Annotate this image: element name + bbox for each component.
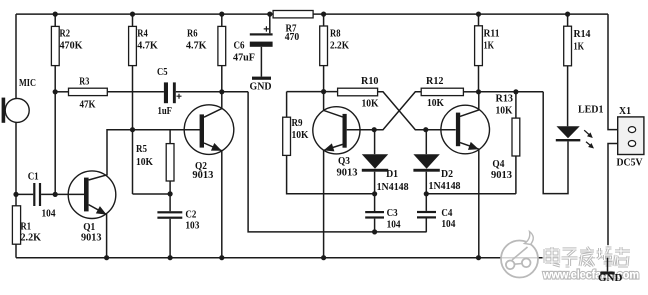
svg-text:D1: D1: [386, 168, 398, 180]
svg-text:1N4148: 1N4148: [429, 180, 461, 192]
svg-text:D2: D2: [441, 168, 453, 180]
svg-text:47K: 47K: [80, 98, 96, 110]
svg-text:1K: 1K: [484, 39, 495, 51]
svg-text:47uF: 47uF: [233, 51, 255, 63]
svg-text:R3: R3: [79, 76, 89, 88]
svg-text:9013: 9013: [491, 169, 512, 181]
svg-text:MIC: MIC: [19, 77, 36, 89]
svg-text:www.elecfans.com: www.elecfans.com: [542, 269, 639, 282]
svg-text:9013: 9013: [192, 169, 213, 181]
svg-text:10K: 10K: [427, 97, 444, 109]
svg-text:4.7K: 4.7K: [186, 40, 207, 52]
svg-text:470K: 470K: [60, 40, 83, 52]
svg-text:R10: R10: [361, 75, 379, 87]
svg-text:104: 104: [387, 218, 401, 230]
svg-text:10K: 10K: [362, 97, 379, 109]
svg-text:103: 103: [185, 219, 199, 231]
svg-text:X1: X1: [619, 105, 631, 117]
svg-text:R6: R6: [187, 27, 198, 39]
svg-text:GND: GND: [250, 80, 272, 92]
svg-text:9013: 9013: [337, 167, 358, 179]
svg-text:GND: GND: [598, 272, 623, 284]
svg-text:2.2K: 2.2K: [21, 231, 42, 243]
svg-text:LED1: LED1: [578, 104, 604, 116]
svg-text:4.7K: 4.7K: [137, 40, 158, 52]
svg-text:R2: R2: [60, 27, 71, 39]
svg-text:C3: C3: [387, 207, 398, 219]
svg-text:DC5V: DC5V: [617, 157, 643, 169]
svg-text:9013: 9013: [81, 231, 102, 243]
svg-text:R11: R11: [484, 28, 500, 40]
svg-text:R13: R13: [496, 92, 514, 104]
svg-text:10K: 10K: [136, 156, 153, 168]
svg-text:Q3: Q3: [338, 155, 350, 167]
svg-text:R9: R9: [292, 117, 303, 129]
svg-text:C5: C5: [157, 66, 168, 78]
svg-text:R14: R14: [574, 28, 591, 40]
svg-text:10K: 10K: [496, 105, 513, 117]
svg-text:104: 104: [441, 218, 455, 230]
svg-text:R8: R8: [330, 27, 341, 39]
svg-text:470: 470: [285, 31, 300, 43]
svg-text:2.2K: 2.2K: [330, 40, 349, 52]
svg-text:10K: 10K: [292, 129, 309, 141]
svg-text:1uF: 1uF: [158, 105, 173, 117]
svg-text:C4: C4: [441, 207, 452, 219]
svg-text:104: 104: [42, 207, 56, 219]
svg-text:R5: R5: [136, 143, 147, 155]
svg-text:C6: C6: [234, 39, 245, 51]
svg-text:R12: R12: [426, 75, 444, 87]
svg-text:1K: 1K: [574, 40, 585, 52]
svg-text:R4: R4: [137, 27, 148, 39]
svg-text:1N4148: 1N4148: [377, 181, 409, 193]
svg-text:C1: C1: [28, 171, 39, 183]
